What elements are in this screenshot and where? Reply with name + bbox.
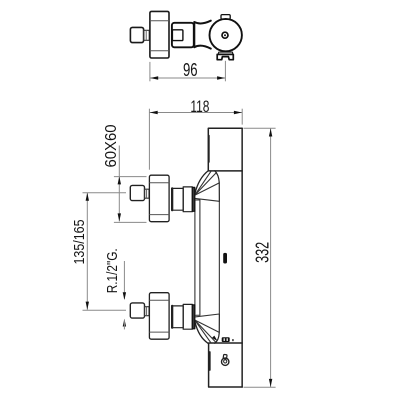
extension line right of 96 — [224, 61, 226, 82]
fan outer fillet curve upper — [195, 171, 208, 194]
fan ray 3 lower — [195, 320, 219, 332]
dimension line 135/165 — [86, 193, 88, 310]
handle knob upper — [130, 185, 144, 200]
body right edge (full height) — [241, 128, 243, 387]
svg-text:96: 96 — [183, 60, 198, 80]
fan ray 3 upper — [195, 183, 219, 195]
stem divider lower — [146, 307, 148, 316]
bottom block — [209, 343, 243, 387]
leader line R.1/2"G. — [123, 261, 125, 299]
wall plate cap line bottom — [150, 50, 169, 52]
fan top edge lower — [195, 314, 219, 317]
handle stem (top view) — [144, 30, 150, 40]
inlet cylinder part 2 lower — [183, 304, 192, 329]
wall plate cap line bottom lower — [150, 331, 169, 333]
outlet fitting black — [222, 337, 230, 342]
wheel hub ring — [222, 32, 228, 38]
fan ray 1 upper — [195, 171, 211, 195]
leader arrow down R.1/2"G. — [123, 292, 126, 300]
handle stem lower — [145, 307, 150, 316]
mounting bracket under wheel — [217, 54, 233, 59]
outlet fitting slit 2 — [227, 338, 228, 341]
fan ray 2 lower — [195, 321, 216, 343]
svg-text:332: 332 — [251, 242, 272, 263]
adapter block (top view) — [172, 23, 194, 48]
inlet flange upper — [192, 187, 195, 211]
wall plate (top view) — [150, 11, 169, 58]
svg-text:135/165: 135/165 — [72, 220, 88, 265]
arrow left 96 — [150, 76, 158, 79]
arrow up 135/165 — [86, 193, 89, 201]
handle stem upper — [145, 189, 150, 198]
wall plate lower — [149, 293, 169, 340]
dimension line 118 — [149, 112, 242, 114]
adapter inner square — [172, 30, 183, 41]
extension line bottom 60X60 — [114, 221, 147, 223]
extension line bottom 135/165 — [83, 309, 127, 311]
neck line L3 — [218, 201, 220, 315]
wall plate cap line top — [150, 20, 169, 22]
fan ray 1 lower — [195, 321, 211, 344]
shower icon stem on bottom block — [223, 354, 227, 359]
inlet cylinder part 1 lower — [172, 306, 184, 328]
fan bottom edge upper — [195, 198, 219, 201]
stem divider (top view) — [145, 30, 147, 40]
svg-text:118: 118 — [190, 97, 209, 116]
neck step top — [195, 199, 200, 201]
outlet fitting dot — [232, 339, 233, 341]
dimension line 60X60 — [118, 146, 120, 222]
leader tail below knob — [123, 320, 125, 329]
fan right curve lower — [215, 315, 220, 343]
arrow down 60X60 — [118, 213, 121, 221]
wall plate cap line top lower — [150, 299, 169, 301]
top block — [208, 128, 242, 171]
arrow left 118 — [150, 111, 158, 114]
shower icon inner circle — [224, 360, 227, 363]
handle knob lower — [130, 303, 144, 318]
arrow down 135/165 — [86, 302, 89, 310]
control wheel (big circle) — [210, 19, 242, 51]
dimension line 332 — [270, 128, 272, 387]
concave connector to wheel — [194, 21, 211, 49]
inlet cylinder part 1 upper — [172, 188, 184, 210]
shower icon circle on bottom block — [222, 358, 229, 365]
fan ray 2 upper — [195, 173, 216, 195]
outlet arrowhead near bottom block — [212, 336, 218, 342]
control wheel top tab — [221, 15, 230, 20]
svg-text:60X60: 60X60 — [103, 124, 120, 167]
arrow top 332 — [269, 129, 272, 137]
extension line top 135/165 — [83, 192, 127, 194]
wall plate cap line bottom upper — [150, 214, 169, 216]
leader arrow up below knob — [123, 319, 126, 327]
arrow right 96 — [217, 76, 225, 79]
fan right curve upper — [215, 171, 220, 202]
extension line left of 96 — [149, 62, 151, 81]
arrow right 118 — [234, 111, 242, 114]
inlet flange lower — [192, 305, 195, 329]
bottom block left edge shading — [209, 352, 211, 370]
arrow bottom 332 — [269, 379, 272, 387]
neck line L2 — [199, 200, 201, 315]
top block left edge shading — [208, 136, 210, 163]
cylinder thick left edge lower — [171, 306, 173, 328]
safety button on column — [223, 253, 227, 264]
wall plate upper — [149, 175, 169, 222]
arrow up 60X60 — [118, 176, 121, 184]
svg-text:R.1/2"G.: R.1/2"G. — [104, 248, 121, 293]
extension line right of 118 — [241, 109, 243, 125]
extension line top 60X60 — [114, 176, 147, 178]
bracket lip under wheel — [219, 52, 233, 54]
fan outer fillet curve lower — [195, 322, 208, 344]
inlet cylinder part 2 upper — [183, 187, 192, 212]
neck step bottom — [195, 314, 200, 316]
outlet fitting slit 1 — [224, 338, 225, 341]
neck line L1 — [194, 200, 196, 314]
extension line top of 332 — [244, 127, 276, 129]
dimension line 96 — [150, 77, 226, 79]
stem divider upper — [146, 189, 148, 198]
handle knob (top view) — [130, 27, 143, 42]
extension line left of 118 — [148, 109, 150, 170]
extension line bottom of 332 — [244, 386, 276, 388]
wall plate cap line top upper — [150, 182, 169, 184]
cylinder thick left edge upper — [171, 188, 173, 210]
wheel hub dot — [224, 34, 226, 36]
